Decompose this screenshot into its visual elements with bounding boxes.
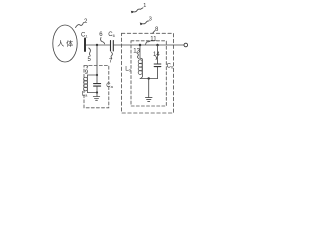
svg-text:L0: L0 <box>125 66 131 72</box>
inner dashed box 11 <box>131 41 166 106</box>
wire top inside left box <box>87 74 97 76</box>
label 3 leader arrow <box>141 21 149 24</box>
svg-text:5: 5 <box>88 57 92 63</box>
node junction at (148.7,78.5) <box>148 77 150 79</box>
svg-text:7: 7 <box>109 59 113 65</box>
wire capacitor C0 top <box>157 45 159 64</box>
wire capacitor Ca bottom <box>96 87 98 93</box>
wire bottom inner box <box>140 78 158 80</box>
node junction at (96.5,92.5) <box>96 91 98 93</box>
output terminal <box>184 43 188 47</box>
label 6 leader <box>101 38 105 44</box>
capacitor C1 plate <box>84 39 86 52</box>
wire vertical to left box <box>96 45 98 75</box>
svg-text:6: 6 <box>99 32 103 38</box>
outer dashed box 8 <box>122 33 174 113</box>
human body ellipse 2 <box>53 25 77 62</box>
svg-text:C6: C6 <box>108 32 115 38</box>
label 1 leader arrow <box>132 8 143 12</box>
left resonant box 9 (dashed) <box>84 66 109 108</box>
wire main horizontal left <box>86 44 110 46</box>
inductor L0 coil <box>140 45 142 79</box>
node junction at (157.5,45) <box>156 44 159 47</box>
label 7 leader <box>111 52 112 58</box>
label 8 leader <box>153 31 155 33</box>
svg-text:3: 3 <box>149 17 152 23</box>
svg-text:人体: 人体 <box>57 39 75 48</box>
ground left <box>93 96 99 98</box>
capacitor C0 plates <box>154 63 161 65</box>
svg-text:13: 13 <box>133 48 140 54</box>
inductor La coil <box>86 75 88 93</box>
capacitor Ca plates <box>94 83 101 85</box>
svg-text:14: 14 <box>153 52 160 58</box>
wire main horizontal right <box>114 44 184 46</box>
capacitor C6 plates <box>110 41 112 52</box>
svg-text:8: 8 <box>155 27 159 33</box>
svg-text:2: 2 <box>84 19 88 25</box>
node junction at x97 <box>96 44 98 46</box>
node junction at (97,75) <box>96 74 98 76</box>
label 11 leader <box>146 41 151 44</box>
svg-text:Ca: Ca <box>106 83 113 89</box>
label 14 leader <box>155 57 158 60</box>
node junction at (140,45) <box>139 44 142 47</box>
svg-text:C1: C1 <box>81 33 88 39</box>
wire to left ground <box>96 93 98 97</box>
ground right <box>146 97 153 99</box>
svg-text:1: 1 <box>143 3 146 9</box>
wire capacitor C0 bottom <box>157 67 159 78</box>
wire to right ground <box>148 79 150 98</box>
svg-text:La: La <box>82 92 88 98</box>
svg-text:11: 11 <box>150 37 157 43</box>
svg-text:C0: C0 <box>167 64 174 70</box>
label 9 leader <box>86 66 89 68</box>
label 13 leader <box>137 53 139 59</box>
wire bottom inside left box <box>87 92 97 94</box>
wire capacitor Ca top <box>96 75 98 83</box>
label 5 leader <box>89 48 91 56</box>
label 2 leader <box>76 23 84 28</box>
